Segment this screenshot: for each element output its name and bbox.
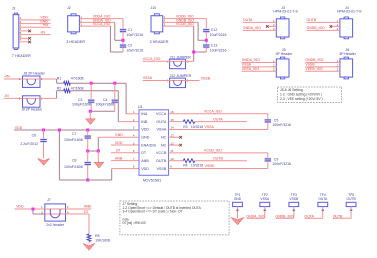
svg-text:VCCA_ISO: VCCA_ISO bbox=[204, 110, 222, 114]
svg-text:J8 2P Header: J8 2P Header bbox=[24, 72, 46, 76]
junction C6 bbox=[42, 129, 45, 132]
svg-text:VSSB: VSSB bbox=[205, 164, 215, 168]
capacitor C6 bbox=[40, 138, 47, 142]
svg-text:R2: R2 bbox=[57, 86, 62, 90]
capacitor C8 bbox=[84, 161, 91, 165]
svg-text:-IN: -IN bbox=[40, 30, 45, 34]
ground R5 bbox=[83, 244, 95, 251]
wire J10 pin3 to J11 bbox=[193, 26, 195, 61]
svg-text:VDD: VDD bbox=[16, 204, 24, 208]
wire J10 pin3 VCCB_ISO bbox=[163, 25, 194, 27]
wire VDD to J7 bbox=[15, 208, 45, 210]
junction J2 bbox=[122, 39, 125, 42]
wire J2 between caps bbox=[122, 32, 124, 45]
svg-text:J5 & J6 Setting: J5 & J6 Setting bbox=[280, 88, 303, 92]
svg-text:2.2uF/2012: 2.2uF/2012 bbox=[20, 142, 38, 146]
connector J2 3-HEADER bbox=[66, 6, 85, 44]
wire OUTA from pin15 bbox=[169, 121, 184, 123]
junction C3 gnd bbox=[89, 110, 92, 113]
test point TP5 OUTB bbox=[346, 193, 356, 207]
ground input filter bbox=[86, 119, 95, 125]
svg-text:+IN: +IN bbox=[4, 74, 10, 78]
wire J7 pin2 ANB bbox=[66, 208, 92, 210]
wire J2 cap bottom return bbox=[122, 47, 124, 52]
wire TP4 stem bbox=[322, 207, 324, 219]
wire VCCB to VCCB_ISO bbox=[169, 152, 268, 154]
svg-text:OUTB: OUTB bbox=[347, 197, 357, 201]
svg-text:2-3 : VEE setting (+20V/-5V: 2-3 : VEE setting (+20V/-5V ) bbox=[280, 97, 323, 101]
svg-text:INA: INA bbox=[141, 112, 148, 116]
svg-text:R4: R4 bbox=[183, 164, 187, 168]
svg-text:GNDB_ISO: GNDB_ISO bbox=[275, 215, 293, 219]
jumper J8 2P Header bbox=[19, 72, 46, 88]
svg-text:VCCB_ISO: VCCB_ISO bbox=[176, 22, 194, 26]
junction C7 bbox=[86, 129, 89, 132]
capacitor C7 100nF/1608 bbox=[87, 130, 89, 135]
wire J2 cap column bbox=[122, 19, 124, 30]
svg-text:C8: C8 bbox=[72, 158, 77, 162]
svg-text:3P Header: 3P Header bbox=[339, 52, 357, 56]
capacitor C3 100pF/1608 branch bbox=[90, 83, 92, 99]
svg-text:TP5: TP5 bbox=[348, 193, 354, 197]
ground logic bbox=[94, 162, 103, 168]
wire J5 pin3 VEEA_ISO bbox=[242, 70, 276, 72]
svg-text:100pF/1608: 100pF/1608 bbox=[96, 102, 115, 106]
wire TP3 stem bbox=[293, 207, 295, 219]
svg-text:OUTA: OUTA bbox=[318, 197, 328, 201]
wire R1 to U1 INA bbox=[70, 82, 126, 84]
no-connect pin13 bbox=[169, 136, 180, 138]
svg-text:J1: J1 bbox=[12, 6, 16, 10]
svg-text:GND: GND bbox=[234, 197, 242, 201]
svg-text:10/3216: 10/3216 bbox=[191, 164, 203, 168]
wire VDD loop to pin8 bbox=[58, 130, 60, 180]
wire VCCA to VCCA_ISO bbox=[169, 113, 268, 115]
svg-text:10/3216: 10/3216 bbox=[191, 125, 203, 129]
wire J9 pin2 to R2 bbox=[40, 97, 57, 99]
resistor R3 10/3216 bbox=[183, 120, 203, 129]
svg-text:VDD: VDD bbox=[141, 128, 149, 132]
svg-text:TP3: TP3 bbox=[291, 193, 297, 197]
wire TP5 stem bbox=[350, 207, 352, 219]
wire GND branch bbox=[88, 150, 99, 152]
svg-text:HPM-03-01-T-S: HPM-03-01-T-S bbox=[273, 10, 298, 14]
svg-text:7 HEADER: 7 HEADER bbox=[12, 54, 31, 58]
wire R5 to ground bbox=[88, 242, 90, 244]
wire J1 pin3 +IN bbox=[19, 26, 51, 28]
note box J7 setting bbox=[120, 201, 229, 235]
wire ANB stub bbox=[111, 160, 139, 162]
svg-text:VDD: VDD bbox=[115, 141, 123, 145]
svg-text:100pF/1608: 100pF/1608 bbox=[72, 102, 91, 106]
svg-text:OUTA: OUTA bbox=[243, 18, 253, 22]
svg-text:OUTB: OUTB bbox=[307, 18, 317, 22]
wire J11 to VCCB_ISO bbox=[186, 60, 194, 62]
connector J10 3-HEADER bbox=[150, 6, 169, 44]
svg-text:TP1: TP1 bbox=[234, 193, 240, 197]
svg-text:10uF/3216: 10uF/3216 bbox=[126, 33, 143, 37]
connector J5 3P Header bbox=[273, 48, 293, 79]
svg-text:C9: C9 bbox=[274, 158, 279, 162]
wire OUTB from pin10 bbox=[169, 160, 184, 162]
wire J3 pin1 OUTA bbox=[243, 21, 276, 23]
svg-text:DT: DT bbox=[141, 151, 147, 155]
wire J4 pin3 GNDB_ISO bbox=[307, 29, 340, 31]
svg-text:C1: C1 bbox=[128, 28, 133, 32]
wire J8 pin2 to R1 bbox=[40, 78, 57, 80]
wire J10 pin1 VDDB_ISO bbox=[163, 18, 207, 20]
wire ENA/DIS VDD stub bbox=[111, 144, 139, 146]
svg-text:-IN: -IN bbox=[4, 94, 9, 98]
svg-text:3 HEADER: 3 HEADER bbox=[150, 40, 169, 44]
junction C7 bottom bbox=[86, 150, 89, 153]
resistor R2 47/1608 bbox=[57, 86, 84, 92]
capacitor C9 100nF/3216 bbox=[267, 153, 269, 158]
svg-text:C12: C12 bbox=[211, 28, 217, 32]
svg-text:47/1608: 47/1608 bbox=[71, 77, 84, 81]
svg-text:C13: C13 bbox=[211, 44, 217, 48]
svg-text:J10: J10 bbox=[150, 6, 156, 10]
no-connect J1 pin4 bbox=[19, 30, 29, 32]
wire J10 between caps bbox=[205, 32, 207, 45]
svg-text:100nF/3216: 100nF/3216 bbox=[272, 123, 291, 127]
svg-text:3 HEADER: 3 HEADER bbox=[66, 40, 85, 44]
wire VCCA_ISO to J11 bbox=[143, 60, 170, 62]
no-connect J3 pin2 bbox=[268, 25, 276, 27]
test point TP1 GND bbox=[233, 193, 243, 207]
svg-text:J7: J7 bbox=[47, 198, 51, 202]
svg-text:OUTA: OUTA bbox=[304, 215, 314, 219]
wire TP3 GNDB_ISO bbox=[276, 217, 294, 219]
wire VSSA to J12 bbox=[143, 80, 170, 82]
wire J10 pin2 branch bbox=[197, 22, 199, 40]
svg-text:R3: R3 bbox=[183, 125, 187, 129]
svg-text:+IN: +IN bbox=[42, 23, 48, 27]
wire J10 cap bottom return bbox=[205, 47, 207, 52]
junction gnd stem bbox=[97, 150, 100, 153]
capacitor C4 bbox=[112, 99, 119, 103]
connector J1 7-HEADER bbox=[12, 6, 31, 58]
capacitor C13 bbox=[203, 44, 210, 48]
junction J7 vdd bbox=[32, 208, 35, 211]
junction J10/J11 bbox=[192, 51, 195, 54]
no-connect J4 pin2 bbox=[332, 25, 340, 27]
connector J6 3P Header bbox=[337, 48, 357, 79]
capacitor C2 bbox=[120, 44, 127, 48]
op-amp U1 NCV51561 bbox=[133, 105, 174, 182]
wire J2 pin1 VDDA_ISO bbox=[79, 18, 123, 20]
svg-text:C5: C5 bbox=[274, 119, 279, 123]
no-connect J1 pin7 bbox=[19, 41, 29, 43]
wire J6 pin1 GNDB_ISO bbox=[305, 62, 340, 64]
svg-text:VSSA: VSSA bbox=[143, 76, 153, 80]
wire OUTB net bbox=[195, 160, 247, 162]
wire J5 pin2 VSSA bbox=[242, 66, 276, 68]
wire J5 pin1 GNDA_ISO bbox=[242, 62, 276, 64]
svg-text:GND: GND bbox=[115, 133, 123, 137]
wire J3 pin3 GNDA_ISO bbox=[243, 29, 276, 31]
svg-text:C6: C6 bbox=[32, 133, 37, 137]
svg-text:HPM-03-01-T-S: HPM-03-01-T-S bbox=[337, 10, 362, 14]
wire DT stub bbox=[111, 152, 139, 154]
no-connect pin12 bbox=[169, 144, 180, 146]
svg-text:OUTA: OUTA bbox=[156, 120, 167, 124]
wire VSSA bbox=[169, 128, 268, 130]
svg-text:VCCA: VCCA bbox=[156, 112, 167, 116]
svg-text:U1: U1 bbox=[138, 105, 143, 109]
test point TP2 VSSA bbox=[260, 193, 270, 207]
svg-text:100nF/3216: 100nF/3216 bbox=[272, 162, 291, 166]
svg-text:VSSA: VSSA bbox=[260, 197, 270, 201]
svg-text:C2: C2 bbox=[128, 44, 133, 48]
svg-text:INB: INB bbox=[141, 120, 148, 124]
wire VDD rail bbox=[14, 129, 139, 131]
wire TP1 stem bbox=[237, 207, 239, 219]
capacitor C6 2.2uF/2012 bbox=[43, 130, 45, 138]
svg-text:VCCB_ISO: VCCB_ISO bbox=[204, 149, 222, 153]
wire J6 pin2 VSSB bbox=[305, 66, 340, 68]
no-connect J1 pin6 bbox=[19, 37, 29, 39]
svg-text:VSSB: VSSB bbox=[156, 167, 166, 171]
svg-text:10K/1608: 10K/1608 bbox=[95, 238, 110, 242]
capacitor C5 100nF/3216 bbox=[267, 114, 269, 119]
jumper J9 2P Header bbox=[19, 96, 43, 112]
svg-text:2x2 Header: 2x2 Header bbox=[46, 223, 65, 227]
capacitor C9 bbox=[265, 158, 272, 162]
svg-text:C3: C3 bbox=[78, 98, 83, 102]
svg-text:3-4 Open/Short <=> DT (note: 3-4 Open/Short <=> DT (note ) / Non- DT bbox=[123, 210, 183, 214]
jumper J7 2x2 Header bbox=[41, 198, 69, 227]
svg-text:NC: NC bbox=[161, 136, 167, 140]
svg-text:VSSA: VSSA bbox=[242, 63, 252, 67]
connector J4 HPM-03-01-T-S bbox=[337, 6, 363, 39]
svg-text:VSSB: VSSB bbox=[289, 197, 299, 201]
connector J3 HPM-03-01-T-S bbox=[273, 6, 299, 39]
svg-text:ENA/DIS: ENA/DIS bbox=[141, 143, 156, 147]
svg-text:10uF/3216: 10uF/3216 bbox=[126, 49, 143, 53]
resistor R1 47/1608 bbox=[57, 77, 84, 86]
wire TP2 GNDA_ISO bbox=[247, 217, 265, 219]
svg-text:DT[ns] =R5/100: DT[ns] =R5/100 bbox=[123, 221, 146, 225]
svg-text:VSSB: VSSB bbox=[305, 63, 315, 67]
svg-text:VDD: VDD bbox=[15, 126, 23, 130]
capacitor C8 100nF/1608 bbox=[87, 151, 89, 161]
junction C4 tap bbox=[113, 82, 116, 85]
svg-text:OUTA: OUTA bbox=[213, 117, 223, 121]
wire J1 pin2 GND bbox=[19, 23, 51, 25]
svg-text:100nF/1608: 100nF/1608 bbox=[64, 165, 83, 169]
svg-text:GNDA_ISO: GNDA_ISO bbox=[242, 58, 260, 62]
svg-text:ANB: ANB bbox=[84, 205, 92, 209]
wire J2 pin2 GNDA_ISO bbox=[79, 21, 114, 23]
wire J12 to VSSB bbox=[186, 80, 200, 82]
svg-text:VEEA_ISO: VEEA_ISO bbox=[242, 67, 260, 71]
svg-text:GNDA_ISO: GNDA_ISO bbox=[246, 215, 264, 219]
wire +IN input bbox=[4, 78, 23, 80]
capacitor C5 bbox=[265, 119, 272, 123]
junction C3 tap bbox=[90, 82, 93, 85]
svg-text:100nF/1608: 100nF/1608 bbox=[64, 138, 83, 142]
svg-text:C7: C7 bbox=[72, 132, 77, 136]
jumper J11 bbox=[167, 55, 192, 68]
svg-text:OUTB: OUTB bbox=[333, 215, 343, 219]
ground C6 bbox=[38, 159, 50, 166]
svg-text:VCCA_ISO: VCCA_ISO bbox=[93, 22, 111, 26]
svg-text:NCV51561: NCV51561 bbox=[143, 178, 162, 182]
wire gnd stem bbox=[97, 151, 99, 162]
svg-text:J9 2P Header: J9 2P Header bbox=[21, 107, 43, 111]
svg-text:VDD: VDD bbox=[141, 167, 149, 171]
svg-text:TP2: TP2 bbox=[262, 193, 268, 197]
svg-text:GNDB_ISO: GNDB_ISO bbox=[305, 58, 323, 62]
wire VSSB bbox=[169, 168, 268, 170]
wire J4 pin1 OUTB bbox=[307, 21, 340, 23]
svg-text:OUTB: OUTB bbox=[213, 156, 223, 160]
svg-text:VSSB: VSSB bbox=[201, 77, 211, 81]
wire TP2 stem bbox=[264, 207, 266, 219]
capacitor C7 bbox=[84, 135, 91, 139]
svg-text:VCCB: VCCB bbox=[156, 151, 167, 155]
svg-text:C4: C4 bbox=[103, 98, 108, 102]
note box J5 and J6 setting bbox=[278, 87, 342, 102]
svg-text:VCCA_ISO: VCCA_ISO bbox=[143, 57, 161, 61]
svg-text:1-2 : GND setting (+20V/0V ): 1-2 : GND setting (+20V/0V ) bbox=[280, 93, 322, 97]
svg-text:J2: J2 bbox=[67, 6, 71, 10]
capacitor C3 bbox=[88, 99, 95, 103]
capacitor C12 bbox=[203, 29, 210, 33]
svg-text:VEEB_ISO: VEEB_ISO bbox=[305, 67, 323, 71]
svg-text:47/1608: 47/1608 bbox=[71, 86, 84, 90]
svg-text:TP4: TP4 bbox=[320, 193, 326, 197]
junction C8 bottom bbox=[86, 179, 89, 182]
capacitor C1 bbox=[120, 29, 127, 33]
wire J2 pin3 VCCA_ISO bbox=[79, 25, 110, 27]
svg-text:VSSA: VSSA bbox=[156, 128, 166, 132]
ground TP1 bbox=[231, 218, 244, 225]
svg-text:GND: GND bbox=[141, 136, 150, 140]
wire C3-C4 bottom bbox=[90, 110, 115, 112]
svg-text:ANB: ANB bbox=[141, 159, 149, 163]
jumper J12 bbox=[167, 74, 192, 87]
svg-text:GNDA_ISO: GNDA_ISO bbox=[243, 26, 261, 30]
svg-text:R1: R1 bbox=[57, 77, 62, 81]
wire J2 pin3 vertical bbox=[109, 26, 111, 52]
wire OUTA net bbox=[195, 121, 247, 123]
wire TP5 OUTB bbox=[333, 217, 351, 219]
svg-text:10uF/3216: 10uF/3216 bbox=[210, 33, 227, 37]
test point TP4 OUTA bbox=[318, 193, 328, 207]
wire VDD to J7 pin3 bbox=[32, 209, 34, 214]
svg-text:10uF/3216: 10uF/3216 bbox=[210, 49, 227, 53]
svg-text:ANB: ANB bbox=[115, 156, 123, 160]
junction VDD loop bbox=[58, 129, 61, 132]
svg-text:OUTB: OUTB bbox=[156, 159, 167, 163]
wire TP4 OUTA bbox=[305, 217, 323, 219]
wire J10 cap column bbox=[205, 19, 207, 30]
wire J2 pin2 branch bbox=[114, 22, 116, 40]
wire J10 pin2 GNDB_ISO bbox=[163, 21, 198, 23]
wire J1 pin1 VDD bbox=[19, 19, 51, 21]
svg-text:GNDB_ISO: GNDB_ISO bbox=[307, 26, 325, 30]
capacitor C4 100pF/1608 branch bbox=[114, 83, 116, 99]
wire J7 pin4 DT to R5 bbox=[66, 213, 90, 215]
svg-text:VSSA: VSSA bbox=[205, 125, 215, 129]
svg-text:3P Header: 3P Header bbox=[276, 52, 294, 56]
resistor R4 10/3216 bbox=[183, 159, 203, 168]
wire to ground bbox=[89, 111, 91, 119]
test point TP3 VSSB bbox=[289, 193, 299, 207]
svg-text:NC: NC bbox=[161, 143, 167, 147]
wire J1 pin5 -IN bbox=[19, 34, 51, 36]
resistor R5 10K/1608 bbox=[87, 234, 110, 242]
wire R2 to U1 INB bbox=[70, 90, 118, 92]
wire J6 pin3 VEEB_ISO bbox=[305, 70, 340, 72]
wire -IN input bbox=[4, 97, 23, 99]
junction J10 bbox=[205, 39, 208, 42]
